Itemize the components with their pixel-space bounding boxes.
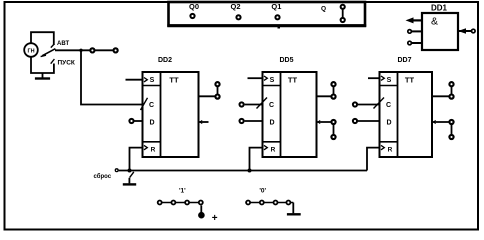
svg-text:'0': '0' — [259, 187, 266, 194]
svg-text:S: S — [150, 77, 155, 84]
svg-text:D: D — [269, 120, 274, 127]
svg-text:R: R — [151, 147, 156, 154]
svg-text:C: C — [149, 102, 154, 109]
svg-text:'1': '1' — [179, 187, 186, 194]
svg-text:+: + — [212, 213, 218, 224]
svg-text:Q: Q — [321, 6, 326, 13]
svg-text:Q0: Q0 — [189, 2, 199, 11]
svg-text:&: & — [431, 16, 438, 28]
svg-text:ГН: ГН — [27, 48, 34, 54]
svg-text:сброс: сброс — [94, 173, 112, 180]
svg-text:TT: TT — [169, 76, 179, 85]
svg-text:ПУСК: ПУСК — [58, 59, 75, 66]
svg-text:C: C — [386, 102, 391, 109]
svg-text:Q2: Q2 — [231, 2, 241, 11]
svg-text:C: C — [269, 102, 274, 109]
svg-text:DD5: DD5 — [279, 57, 293, 64]
svg-text:R: R — [388, 147, 393, 154]
svg-text:АВТ: АВТ — [57, 41, 69, 47]
svg-text:DD1: DD1 — [431, 4, 448, 13]
svg-text:DD2: DD2 — [158, 57, 172, 64]
svg-text:R: R — [271, 147, 276, 154]
svg-text:S: S — [270, 77, 275, 84]
svg-text:D: D — [386, 120, 391, 127]
svg-text:Q1: Q1 — [271, 2, 281, 11]
svg-text:S: S — [387, 77, 392, 84]
svg-text:D: D — [149, 120, 154, 127]
svg-text:DD7: DD7 — [397, 57, 411, 64]
svg-text:TT: TT — [405, 76, 415, 85]
svg-text:TT: TT — [288, 76, 298, 85]
